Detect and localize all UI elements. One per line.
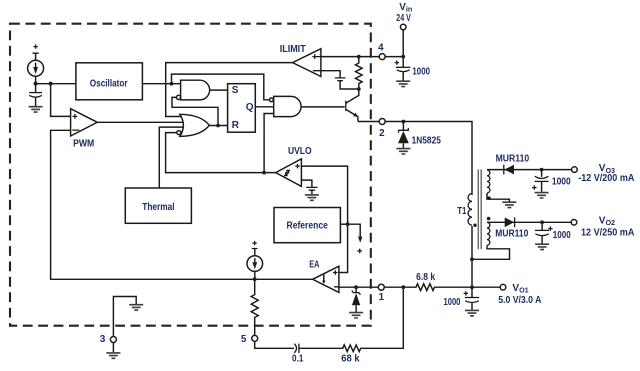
node VO2 capacitor junction <box>540 220 544 224</box>
pin 5 circle <box>252 335 258 341</box>
node pin 2 / 1N5825 <box>402 120 406 124</box>
wire UVLO output to OR gate inverted input <box>166 133 276 173</box>
transformer T1 core <box>478 169 481 249</box>
ground below VO1 capacitor <box>465 310 479 315</box>
svg-text:MUR110: MUR110 <box>495 229 528 240</box>
capacitor 0.1 <box>294 344 296 353</box>
wire Vin terminal down <box>402 30 404 57</box>
node ILIMIT + / sense resistor top <box>357 55 361 59</box>
svg-text:4: 4 <box>378 42 384 53</box>
VO2 terminal <box>571 220 577 226</box>
svg-text:T1: T1 <box>457 206 467 217</box>
wire oscillator node up to right AND gate inverted input <box>172 74 270 100</box>
wire secondary return to VO1 node <box>472 246 510 260</box>
node Vin <box>401 55 405 59</box>
svg-text:ILIMIT: ILIMIT <box>280 44 306 55</box>
wire pin 4 to Vin node <box>385 56 403 58</box>
node EA output / pin 5 branch <box>253 277 257 281</box>
wire Reference branch arrow <box>348 224 361 238</box>
NAND input bubble <box>176 95 180 99</box>
wire Q1 emitter to pin 2 <box>358 121 379 123</box>
wire OR output feedback to NAND inverted input <box>172 97 218 125</box>
wire oscillator output to NAND gate <box>142 83 180 85</box>
current source I1 <box>33 44 39 53</box>
wire Q output to right AND gate <box>255 106 273 108</box>
VO1 terminal <box>500 284 506 290</box>
svg-text:Reference: Reference <box>287 220 329 231</box>
svg-text:1000: 1000 <box>553 230 571 241</box>
svg-text:R: R <box>232 120 240 131</box>
Thermal block <box>125 188 191 223</box>
Reference block <box>274 208 340 243</box>
OR gate driving R <box>180 114 210 136</box>
pin 3 circle <box>110 337 116 343</box>
wire pin 2 to transformer primary <box>385 122 472 196</box>
wire right AND gate output to Q1 base <box>301 106 345 108</box>
svg-text:1000: 1000 <box>444 297 461 308</box>
svg-text:MUR110: MUR110 <box>496 154 530 165</box>
VO3 filter capacitor 1000 <box>541 170 543 177</box>
wire PWM output to OR gate input <box>97 121 183 123</box>
ground below 1N5825 <box>396 149 410 154</box>
EA error amplifier U4 <box>313 266 339 292</box>
resistor R2 <box>251 279 258 335</box>
ground below input capacitor <box>396 81 410 86</box>
svg-text:UVLO: UVLO <box>288 146 312 157</box>
transistor Q1 <box>345 101 347 111</box>
svg-text:3: 3 <box>100 334 106 345</box>
wire ILIMIT output down to OR gate input <box>166 63 293 117</box>
ground top secondary return <box>502 202 516 207</box>
transformer T1 bottom secondary winding <box>487 222 490 245</box>
right AND gate <box>274 96 301 116</box>
svg-text:1N5825: 1N5825 <box>412 135 442 146</box>
transformer T1 primary winding <box>468 194 472 226</box>
svg-text:1: 1 <box>379 292 385 303</box>
wire ILIMIT - input to offset battery <box>321 71 340 78</box>
svg-text:5.0 V/3.0 A: 5.0 V/3.0 A <box>498 295 541 306</box>
NAND gate (inverted-input AND) driving S <box>181 80 210 100</box>
transformer T1 top secondary winding <box>487 170 490 193</box>
svg-text:1000: 1000 <box>552 176 571 187</box>
Vin terminal <box>400 24 406 30</box>
node pin 1 / 68k feedback <box>401 285 405 289</box>
wire top secondary return to ground <box>487 193 509 202</box>
node R input branch <box>216 124 220 128</box>
svg-text:Oscillator: Oscillator <box>90 78 128 89</box>
wire pin 3 internal ground <box>113 297 136 337</box>
right AND gate input bubble <box>270 98 274 102</box>
diode 1N5825 <box>402 122 404 131</box>
wire NAND output to S input <box>210 89 228 91</box>
current sense resistor R1 <box>356 57 363 89</box>
VO3 terminal <box>572 167 578 173</box>
wire battery to current sense node <box>340 81 359 89</box>
wire VO1 node to terminal <box>472 286 500 288</box>
plus label of Reference branch <box>357 249 362 254</box>
wire EA output to PWM - input <box>51 130 313 279</box>
wire UVLO output up to right AND gate input <box>264 114 274 173</box>
svg-text:1000: 1000 <box>412 67 430 78</box>
node VO3 capacitor junction <box>540 168 544 172</box>
wire EA - input to pin 1 <box>339 286 378 288</box>
SR latch box <box>228 84 256 133</box>
svg-text:5: 5 <box>241 334 247 345</box>
VO1 filter capacitor 1000 <box>471 287 473 297</box>
diode MUR110 top <box>503 165 505 175</box>
IC dashed boundary box <box>10 24 371 326</box>
node EA inverting input / zener <box>354 285 358 289</box>
svg-text:2: 2 <box>379 128 385 139</box>
pin 2 circle <box>379 119 385 125</box>
internal ground near pin 3 <box>129 305 143 310</box>
node Reference output <box>346 222 350 226</box>
input capacitor 1000 <box>402 57 404 67</box>
svg-text:12 V/250 mA: 12 V/250 mA <box>581 227 634 238</box>
wire ILIMIT + input to pin 4 <box>321 56 379 58</box>
wire pin 1 to 6.8k resistor <box>385 286 404 288</box>
resistor 6.8 k <box>403 284 472 291</box>
svg-text:6.8 k: 6.8 k <box>416 272 435 283</box>
zener diode Z1 <box>355 287 357 292</box>
wire top secondary to VO3 terminal <box>487 169 572 171</box>
wire OR output to R input <box>209 125 227 127</box>
current source I2 <box>252 241 258 249</box>
wire Reference output stub <box>340 223 347 225</box>
T1 bottom secondary phase dot <box>487 217 491 221</box>
pin 1 circle <box>378 284 384 290</box>
svg-text:Thermal: Thermal <box>142 202 175 213</box>
VO2 filter capacitor 1000 <box>541 222 543 230</box>
wire current source I1 to oscillator <box>36 83 76 85</box>
pin 4 circle <box>379 54 385 60</box>
svg-text:0.1: 0.1 <box>292 354 304 365</box>
svg-text:-12 V/200 mA: -12 V/200 mA <box>578 173 634 184</box>
wire EA + input up to UVLO + input <box>301 166 347 272</box>
ground below zener <box>349 313 363 318</box>
ILIMIT comparator U2 <box>293 49 321 77</box>
oscillator block <box>76 63 142 100</box>
T1 top secondary phase dot <box>487 196 491 200</box>
node oscillator output branch <box>170 82 174 86</box>
capacitor C1 <box>35 84 37 93</box>
ground below pin 3 <box>106 353 120 358</box>
node current source I1 output <box>34 82 38 86</box>
svg-text:S: S <box>232 85 239 96</box>
OR input bubble <box>177 131 181 135</box>
offset battery B1 <box>335 78 346 81</box>
wire oscillator node down to PWM + input <box>51 84 71 117</box>
node PWM ramp branch <box>49 82 53 86</box>
node VO1 <box>470 285 474 289</box>
wire primary bottom down to VO1 node <box>471 226 473 287</box>
wire Thermal to OR gate input <box>159 127 184 188</box>
ground below UVLO battery <box>305 195 319 200</box>
node secondary return junction <box>470 257 474 261</box>
T1 primary phase dot <box>473 224 476 227</box>
UVLO comparator U3 <box>276 159 302 187</box>
diode MUR110 bottom <box>505 218 515 228</box>
ground below VO2 capacitor <box>535 244 549 249</box>
svg-text:EA: EA <box>309 259 319 270</box>
svg-text:Q: Q <box>246 102 254 113</box>
wire bottom secondary to VO2 terminal <box>487 221 571 223</box>
ground below VO3 capacitor <box>535 193 549 198</box>
node UVLO output branch <box>262 171 266 175</box>
node sense resistor bottom / Q1 collector <box>357 87 361 91</box>
svg-text:24 V: 24 V <box>396 13 411 24</box>
wire pin 5 to feedback network <box>255 342 294 349</box>
UVLO reference battery B2 <box>301 180 312 187</box>
PWM comparator <box>71 109 98 136</box>
svg-text:68 k: 68 k <box>341 354 360 365</box>
resistor 68 k <box>299 287 403 351</box>
wire pin 3 to external ground <box>112 343 114 353</box>
ground below C1 <box>29 107 43 112</box>
svg-text:PWM: PWM <box>73 138 94 149</box>
